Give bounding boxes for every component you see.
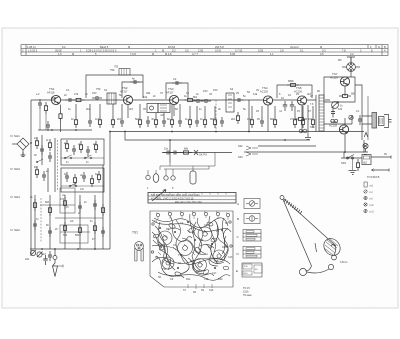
svg-text:m.2: m.2 xyxy=(370,204,375,207)
bias resistor R TS1 xyxy=(59,110,62,122)
svg-text:5k6: 5k6 xyxy=(45,201,50,204)
dual diode circles xyxy=(331,119,334,122)
switch wafer box 2 xyxy=(61,168,104,192)
svg-text:SK9: SK9 xyxy=(341,161,346,165)
svg-text:TS3: TS3 xyxy=(178,254,183,257)
svg-text:5k6: 5k6 xyxy=(270,118,275,121)
long vertical left xyxy=(30,100,32,143)
bottom bus xyxy=(30,248,110,250)
svg-text:AF116: AF116 xyxy=(47,90,55,94)
svg-text:Venst.2: Venst.2 xyxy=(290,45,299,49)
svg-text:R14: R14 xyxy=(190,260,195,263)
series capacitor C xyxy=(92,96,102,100)
svg-text:S42: S42 xyxy=(238,144,243,148)
svg-text:680k: 680k xyxy=(288,79,294,83)
svg-text:0.3: 0.3 xyxy=(322,49,326,53)
svg-text:100: 100 xyxy=(338,108,343,111)
svg-text:750: 750 xyxy=(114,66,119,69)
stub pin xyxy=(315,243,317,252)
svg-text:470: 470 xyxy=(290,118,295,121)
wafer 1 labels xyxy=(64,143,96,164)
resistor battery row xyxy=(356,159,359,171)
svg-text:2k2: 2k2 xyxy=(117,118,122,121)
svg-text:TS1: TS1 xyxy=(49,87,55,91)
coupling electrolytic C xyxy=(290,101,294,111)
svg-text:R18: R18 xyxy=(196,270,201,273)
tiny value labels under IF strip xyxy=(71,118,313,121)
svg-text:M: M xyxy=(72,52,74,56)
loop bottom wire xyxy=(324,115,352,125)
connector arrows S43 xyxy=(246,152,258,156)
svg-text:680: 680 xyxy=(210,118,215,121)
svg-text:3.5: 3.5 xyxy=(320,52,324,56)
svg-text:M: M xyxy=(320,45,322,49)
svg-text:750: 750 xyxy=(96,87,101,91)
pivot circle xyxy=(280,196,284,200)
motor / gang crossed circle M1 xyxy=(342,57,360,77)
svg-text:1.1: 1.1 xyxy=(270,52,274,56)
table text row 1 xyxy=(22,45,386,56)
wires output xyxy=(325,77,372,152)
svg-text:SH4: SH4 xyxy=(14,195,20,199)
svg-text:TS7: TS7 xyxy=(332,72,338,76)
key item 3 xyxy=(364,196,367,199)
key item 5 xyxy=(364,209,367,212)
junction dots on bus xyxy=(41,248,43,250)
dual diode cell xyxy=(299,129,303,133)
svg-text:TS4: TS4 xyxy=(199,239,204,242)
svg-text:560: 560 xyxy=(63,234,68,237)
IF strip shunt components xyxy=(74,104,314,128)
svg-text:15V: 15V xyxy=(92,91,97,95)
transistor TS3 xyxy=(169,95,178,104)
svg-text:m.3: m.3 xyxy=(370,211,375,214)
svg-text:SH3: SH3 xyxy=(14,167,20,171)
svg-text:5.05: 5.05 xyxy=(258,49,264,53)
pcb bottom pointer lines xyxy=(188,284,212,289)
IF transformer S2 box xyxy=(226,93,234,112)
svg-text:c 5.02 5: c 5.02 5 xyxy=(28,49,38,53)
svg-text:M: M xyxy=(162,49,164,53)
svg-text:B: B xyxy=(237,217,239,221)
terminal + lead xyxy=(371,156,391,159)
capacitor C xyxy=(163,151,173,155)
svg-text:4k7: 4k7 xyxy=(307,92,312,96)
svg-text:750: 750 xyxy=(110,68,115,72)
svg-text:C13: C13 xyxy=(228,256,233,259)
components in wafer 2 xyxy=(65,172,69,182)
svg-text:TN-aaa: TN-aaa xyxy=(243,294,252,297)
svg-text:1.5: 1.5 xyxy=(58,52,62,56)
adjuster arrow xyxy=(152,190,166,202)
transistor TS2 xyxy=(123,95,132,104)
pcb outline xyxy=(150,211,233,287)
svg-text:M5: M5 xyxy=(338,59,342,62)
pcb small pads xyxy=(159,227,161,229)
leads to pots xyxy=(148,166,193,176)
svg-text:A 7.7: A 7.7 xyxy=(192,52,198,56)
pcb stem lines to top circles xyxy=(158,216,228,220)
link wire xyxy=(307,269,329,273)
vertical TS2 emitter xyxy=(127,105,129,118)
wire battery row xyxy=(341,152,362,158)
svg-text:TS1: TS1 xyxy=(162,268,167,271)
left cluster components xyxy=(35,137,38,149)
transistor TS8 xyxy=(339,125,348,134)
svg-text:M: M xyxy=(128,45,130,49)
IF transformer S1 box xyxy=(107,93,116,104)
idler circle xyxy=(299,268,306,275)
series capacitor C xyxy=(234,98,244,102)
svg-text:B2: B2 xyxy=(364,161,368,165)
mid horizontal wires xyxy=(40,205,103,232)
svg-text:680: 680 xyxy=(351,93,356,96)
vertical TS3 emitter xyxy=(173,105,175,116)
coil box on shield top xyxy=(119,69,130,76)
svg-text:1.08 (c): 1.08 (c) xyxy=(27,45,36,49)
svg-text:R12: R12 xyxy=(186,278,191,281)
capacitor C feedback TS3 xyxy=(172,81,182,85)
resistor R xyxy=(180,151,192,154)
switch contact SH3 xyxy=(36,161,38,163)
feedback loop TS3 xyxy=(166,83,188,99)
ground tone xyxy=(305,138,311,140)
mid cluster y 195-250 xyxy=(35,165,103,249)
svg-text:2.2: 2.2 xyxy=(350,52,354,56)
connector arrows S42 xyxy=(246,146,258,150)
potentiometer P2 xyxy=(37,252,42,257)
cap C near rail xyxy=(46,121,50,131)
svg-text:100: 100 xyxy=(308,118,313,121)
transistor TS5 xyxy=(297,96,306,105)
svg-text:TS5: TS5 xyxy=(296,86,302,90)
svg-text:AF117: AF117 xyxy=(120,89,128,93)
svg-text:C11: C11 xyxy=(208,246,213,249)
svg-text:520 600 700 800 900 1000: 520 600 700 800 900 1000 1100 1300 1600 xyxy=(151,194,200,197)
rail y=152 xyxy=(244,140,364,152)
svg-text:05.08: 05.08 xyxy=(55,49,62,53)
pot contact circle xyxy=(164,176,168,180)
spring hatch xyxy=(284,199,302,214)
svg-text:M: M xyxy=(152,52,154,56)
svg-text:m./: m./ xyxy=(370,191,374,194)
capacitor C xyxy=(170,151,180,155)
small roller xyxy=(328,264,333,269)
svg-text:TS3: TS3 xyxy=(168,87,174,91)
switch SK9 xyxy=(347,157,349,159)
ground under diamond xyxy=(21,152,26,156)
svg-text:2k2: 2k2 xyxy=(231,118,236,121)
driver transformer hatched xyxy=(319,95,324,131)
capacitor C mid xyxy=(331,108,335,118)
svg-text:N: N xyxy=(378,45,380,49)
wire main signal rail y=100 xyxy=(31,99,316,101)
svg-text:C2: C2 xyxy=(173,77,177,81)
left bias wire y=130 xyxy=(38,129,92,131)
svg-text:a 2: a 2 xyxy=(36,93,40,96)
bottom rail y=132 xyxy=(110,131,364,133)
resistor R tone xyxy=(295,117,307,120)
long vertical x=170 xyxy=(169,140,171,163)
dashed link mid xyxy=(40,198,42,242)
svg-text:3.7.52: 3.7.52 xyxy=(235,49,243,53)
vertical wires xyxy=(31,135,55,255)
speaker transformer hatched xyxy=(372,113,377,129)
switch contacts wafer 2 xyxy=(69,185,71,187)
input coupling parts left of TS1 xyxy=(38,99,42,109)
wafer 2 inner wire xyxy=(61,185,104,187)
small roller upper xyxy=(332,255,337,260)
svg-text:49m 41m 31m 25m 19m: 49m 41m 31m 25m 19m xyxy=(175,201,202,204)
second long vertical xyxy=(367,96,369,140)
transistor cans on pcb xyxy=(158,231,172,245)
AGC wire TS1 xyxy=(40,109,46,130)
antenna T xyxy=(347,57,355,62)
bracket wires volume xyxy=(160,153,215,171)
pot with arrow xyxy=(332,102,339,109)
wafer 2 labels xyxy=(64,174,98,191)
left cluster labels xyxy=(34,138,49,173)
tiny value labels IF row xyxy=(51,68,320,117)
series resistor R xyxy=(73,98,85,101)
pcb traces xyxy=(152,220,231,232)
switch contacts wafer 1 xyxy=(64,157,66,159)
svg-text:4k7: 4k7 xyxy=(42,253,47,256)
pot body ellipse xyxy=(153,174,159,183)
svg-text:202 5.8: 202 5.8 xyxy=(215,45,224,49)
hook xyxy=(331,245,336,256)
resistor R 680 xyxy=(339,94,351,97)
svg-text:15V: 15V xyxy=(213,88,218,92)
svg-text:5k6: 5k6 xyxy=(135,118,140,121)
pot contact circle xyxy=(171,176,175,180)
long vertical x=110 xyxy=(109,132,111,250)
svg-text:Band 5: Band 5 xyxy=(100,45,109,49)
transistor TS7 xyxy=(340,77,349,86)
potentiometer P1 xyxy=(30,250,35,255)
capacitor C inner loop xyxy=(130,80,140,84)
svg-text:S10: S10 xyxy=(209,289,214,292)
transistor TS4 xyxy=(263,96,272,105)
pcb mounting circles xyxy=(156,213,159,216)
arrow mark under speaker xyxy=(364,133,368,138)
svg-text:S2: S2 xyxy=(230,87,234,91)
svg-text:5.28 0.5.0 5.0 2.05 0.0.8 0: 5.28 0.5.0 5.0 2.05 0.0.8 0 xyxy=(86,49,117,53)
speaker magnet and frame xyxy=(379,117,385,126)
small cap bottom xyxy=(48,251,52,261)
key item 4 xyxy=(364,203,367,206)
pickup diamond xyxy=(12,138,29,155)
svg-text:S43: S43 xyxy=(238,155,243,159)
wire pickup y=152.5 xyxy=(162,152,232,154)
svg-text:8.: 8. xyxy=(371,49,373,53)
rail y=146 xyxy=(258,145,316,147)
junction dots rail xyxy=(51,129,53,131)
svg-text:AC128: AC128 xyxy=(330,75,338,79)
svg-text:LDR: LDR xyxy=(51,96,56,100)
svg-text:E: E xyxy=(236,269,238,273)
svg-text:0.0.8: 0.0.8 xyxy=(215,49,221,53)
transistor TS1 xyxy=(51,95,60,104)
jack side lead xyxy=(58,265,64,268)
vertical TS4 emitter xyxy=(267,105,269,131)
rail step xyxy=(125,132,310,141)
slide pot body xyxy=(190,171,196,184)
battery box B2 xyxy=(362,155,371,165)
svg-text:3V: 3V xyxy=(256,88,259,92)
svg-text:AC126: AC126 xyxy=(260,89,268,93)
svg-text:SH1: SH1 xyxy=(14,134,20,138)
series capacitor C xyxy=(65,98,75,102)
svg-text:470: 470 xyxy=(60,198,65,201)
driver loop box xyxy=(324,77,355,99)
gang dashed link xyxy=(215,100,217,130)
svg-text:S1: S1 xyxy=(104,88,108,92)
electrolytic C bottom xyxy=(43,255,47,265)
terminal - lead xyxy=(372,169,389,172)
series resistor R xyxy=(184,98,196,101)
svg-text:AF117: AF117 xyxy=(166,90,174,94)
svg-text:Filt 52: Filt 52 xyxy=(168,45,176,49)
speaker inner bars xyxy=(380,118,383,124)
oscillator coil box with core xyxy=(147,104,158,113)
pcb left edge pads xyxy=(152,223,154,225)
shield box around mixer TS2 xyxy=(86,75,143,98)
arm upper line with spring xyxy=(284,199,337,247)
svg-text:TN 1516 B: TN 1516 B xyxy=(367,175,380,179)
svg-text:47k: 47k xyxy=(74,92,79,96)
svg-text:0,5mm: 0,5mm xyxy=(340,261,347,264)
title table xyxy=(21,45,388,56)
jack symbol with circle xyxy=(53,256,57,260)
svg-text:2.05: 2.05 xyxy=(198,49,204,53)
svg-text:0.5: 0.5 xyxy=(185,49,189,53)
coupling electrolytic C xyxy=(283,101,287,111)
key item 2 xyxy=(364,190,367,193)
svg-text:C15: C15 xyxy=(204,278,209,281)
svg-text:9V: 9V xyxy=(384,153,387,156)
components in wafer 1 xyxy=(65,140,68,152)
svg-text:560: 560 xyxy=(75,234,80,237)
switch wafer box 1 xyxy=(61,139,104,165)
value labels xyxy=(25,196,87,261)
svg-text:39k: 39k xyxy=(146,91,151,95)
svg-text:5.05: 5.05 xyxy=(230,52,236,56)
svg-text:7.0.8: 7.0.8 xyxy=(130,52,136,56)
pcb extra parts small ellipses xyxy=(168,223,176,230)
pcb dense scribble traces xyxy=(154,218,228,228)
resistor R feedback xyxy=(287,83,299,86)
switch SK PU cross xyxy=(194,150,198,155)
series capacitor C xyxy=(201,99,211,103)
svg-text:TS4: TS4 xyxy=(262,86,268,90)
pcb inner small circles xyxy=(163,236,167,240)
lower linkage xyxy=(306,266,312,271)
svg-text:SK PU: SK PU xyxy=(199,153,207,157)
svg-text:M.2.8: M.2.8 xyxy=(165,52,172,56)
pcb extra traces xyxy=(152,232,171,270)
vertical TS5 emitter xyxy=(301,105,303,131)
svg-text:TS2: TS2 xyxy=(122,86,128,90)
svg-text:4k7: 4k7 xyxy=(129,107,134,111)
svg-text:TS1: TS1 xyxy=(132,231,138,235)
component labels on pcb xyxy=(154,212,233,282)
phone jack symbol xyxy=(363,143,368,148)
roller cylinder xyxy=(320,235,343,258)
svg-text:5.2: 5.2 xyxy=(172,49,176,53)
svg-text:TS5: TS5 xyxy=(214,260,219,263)
switch link dashed xyxy=(57,140,59,190)
svg-text:NTC: NTC xyxy=(310,126,315,129)
tall box cluster xyxy=(60,188,75,213)
svg-text:15V: 15V xyxy=(203,89,208,93)
vertical drop TS4 base xyxy=(248,100,250,132)
key item 1 xyxy=(364,182,367,187)
svg-text:SH2: SH2 xyxy=(14,228,20,232)
svg-text:A: A xyxy=(237,202,239,206)
small box cluster xyxy=(60,225,88,243)
svg-text:10k: 10k xyxy=(143,95,148,99)
capacitor C out xyxy=(358,115,362,125)
svg-text:R20: R20 xyxy=(218,278,223,281)
svg-text:B: B xyxy=(384,45,386,49)
ground battery xyxy=(352,159,354,170)
svg-text:C17: C17 xyxy=(212,272,217,275)
dial tick marks xyxy=(154,193,226,195)
svg-text:12k: 12k xyxy=(253,92,258,96)
svg-text:0.1: 0.1 xyxy=(356,110,360,113)
inner loop TS2 xyxy=(122,82,143,98)
SH lead stubs xyxy=(10,136,13,230)
svg-text:0.1: 0.1 xyxy=(66,88,70,92)
svg-text:m.l: m.l xyxy=(370,198,374,201)
feedback loop TS4/TS5 xyxy=(277,85,312,98)
svg-text:5.1: 5.1 xyxy=(300,49,304,53)
svg-text:4n7: 4n7 xyxy=(95,118,100,121)
thermistor circle xyxy=(349,115,353,119)
svg-text:10n: 10n xyxy=(164,148,169,151)
vertical x=308 xyxy=(307,105,309,137)
svg-text:TS2: TS2 xyxy=(158,244,163,247)
svg-text:R16: R16 xyxy=(222,246,227,249)
caption under pcb xyxy=(243,287,252,297)
series capacitor C xyxy=(193,99,203,103)
wafer 1 inner wire xyxy=(61,157,104,159)
pot contact circle xyxy=(146,175,150,179)
mid cluster labels xyxy=(36,195,95,241)
svg-text:7.8: 7.8 xyxy=(342,49,346,53)
svg-text:2.8: 2.8 xyxy=(280,49,284,53)
svg-text:6.2: 6.2 xyxy=(62,45,66,49)
pcb hatch strokes xyxy=(158,230,227,265)
